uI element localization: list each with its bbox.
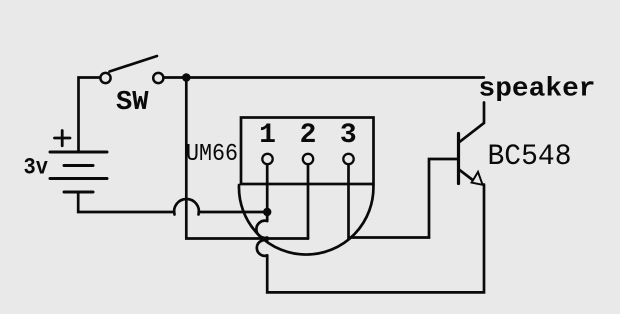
UM66 pin 3 circle <box>343 154 353 164</box>
svg-text:3: 3 <box>340 120 357 151</box>
svg-text:UM66: UM66 <box>186 141 238 168</box>
battery B1 plate long <box>50 177 107 180</box>
wire top rail from switch to speaker <box>165 76 484 79</box>
svg-text:SW: SW <box>116 88 149 118</box>
wire hop over positive rail <box>257 240 267 256</box>
svg-text:BC548: BC548 <box>488 140 572 174</box>
svg-text:1: 1 <box>259 120 276 151</box>
UM66 pin 1 circle <box>262 154 272 164</box>
wire battery positive to switch <box>79 78 100 153</box>
switch SW left contact <box>100 73 110 83</box>
wire node A down to positive rail and to pin 2 <box>186 79 308 239</box>
UM66 package arc <box>239 185 373 255</box>
wire hop to node B <box>199 211 267 214</box>
svg-text:3v: 3v <box>24 155 49 182</box>
junction node B dot <box>263 208 271 216</box>
transistor Q1 emitter arrow <box>472 172 483 185</box>
battery B1 plate short bottom <box>64 191 93 194</box>
junction node A dot <box>182 73 191 82</box>
wire crossing segment <box>266 238 269 241</box>
wire UM66 pin 1 down to node B <box>266 164 269 221</box>
wire UM66 pin 2 down to positive rail <box>307 164 310 238</box>
svg-text:2: 2 <box>300 120 317 151</box>
battery plus sign <box>55 131 71 146</box>
UM66 body rectangle <box>241 118 374 185</box>
wire hop over supply wire <box>174 199 199 215</box>
battery B1 plate long top <box>50 151 107 154</box>
wire battery negative to hop <box>78 193 174 212</box>
transistor Q1 base bar <box>457 134 460 184</box>
battery B1 plate short <box>64 164 93 167</box>
wire UM66 pin 3 to transistor base <box>349 159 457 238</box>
switch SW blade <box>110 56 158 72</box>
wire pin 1 to ground rail and emitter riser <box>267 185 484 293</box>
UM66 pin 2 circle <box>303 154 313 164</box>
transistor Q1 emitter <box>459 169 474 181</box>
svg-text:speaker: speaker <box>479 75 596 105</box>
switch SW right contact <box>153 73 163 83</box>
wire hop over package arc <box>256 221 267 238</box>
transistor Q1 collector <box>459 103 484 143</box>
